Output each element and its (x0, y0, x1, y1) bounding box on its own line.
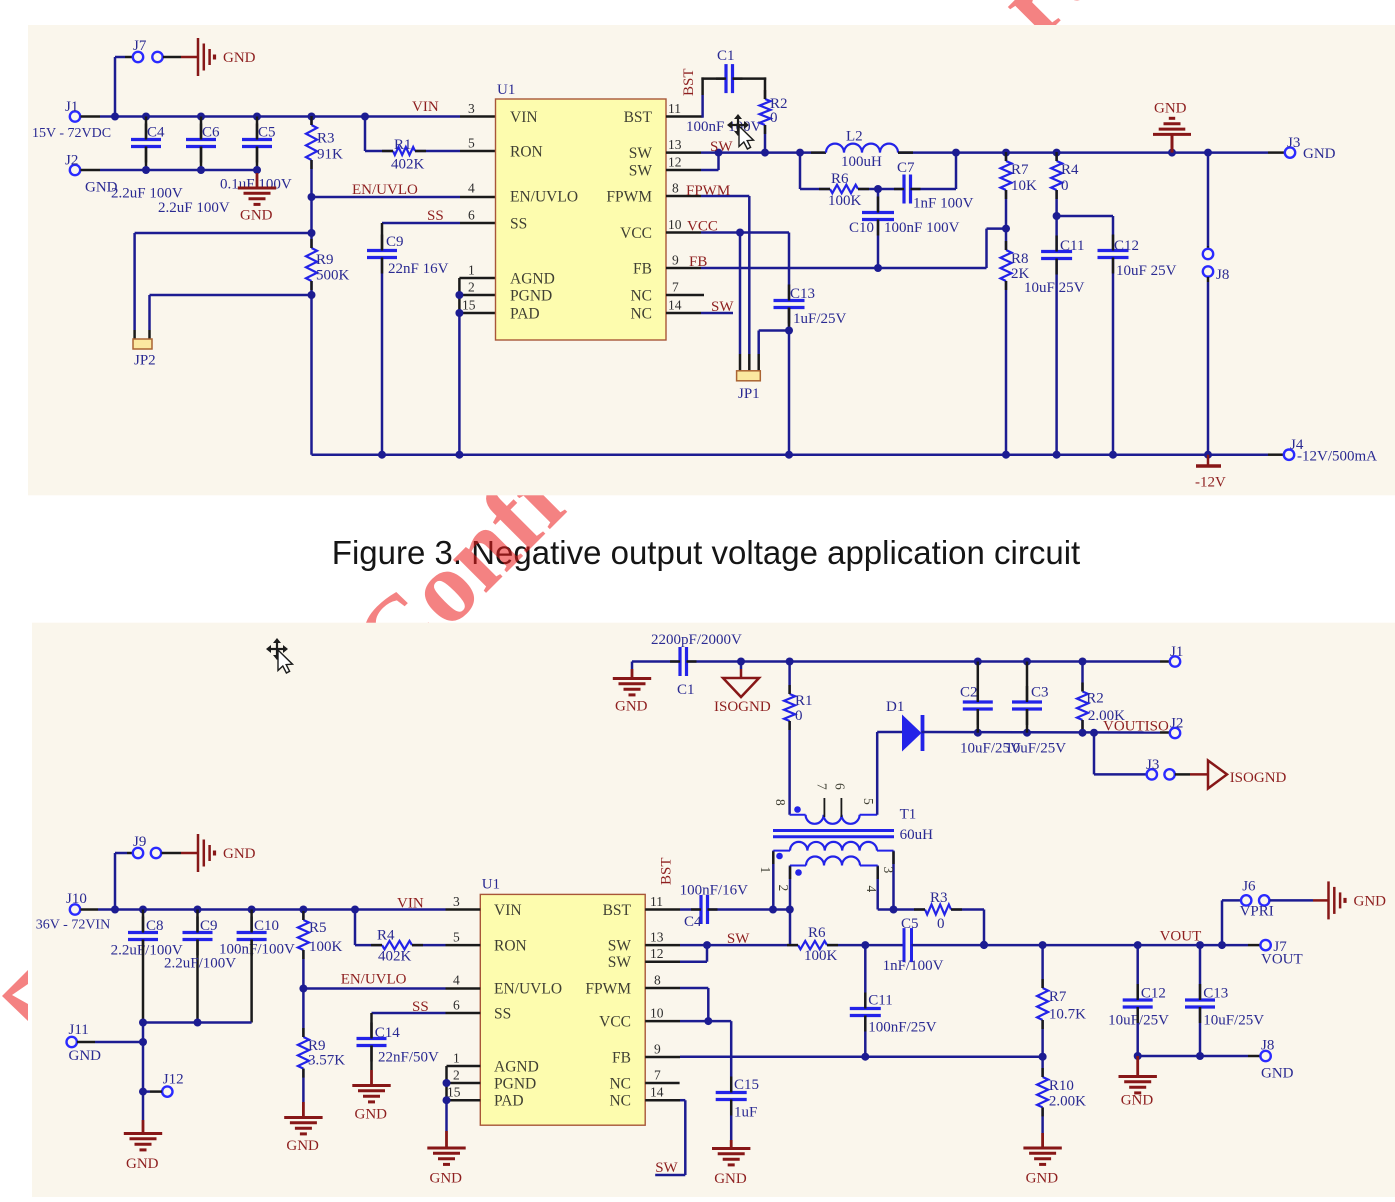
svg-text:J12: J12 (163, 1072, 184, 1088)
svg-text:VPRI: VPRI (1240, 904, 1274, 920)
svg-text:2: 2 (453, 1068, 460, 1083)
svg-text:5: 5 (453, 930, 460, 945)
svg-text:R2: R2 (1086, 691, 1104, 707)
svg-text:SW: SW (608, 938, 632, 955)
svg-text:7: 7 (672, 280, 679, 295)
svg-text:GND: GND (1303, 146, 1336, 162)
svg-text:4: 4 (468, 181, 475, 196)
svg-text:NC: NC (630, 306, 652, 323)
svg-text:BST: BST (681, 68, 697, 96)
svg-text:FPWM: FPWM (686, 183, 730, 199)
svg-text:RON: RON (510, 144, 543, 161)
svg-text:GND: GND (1154, 101, 1187, 117)
svg-text:500K: 500K (316, 268, 350, 284)
svg-text:12: 12 (668, 155, 682, 170)
svg-text:22nF 16V: 22nF 16V (388, 261, 449, 277)
svg-text:D1: D1 (886, 699, 904, 715)
svg-text:7: 7 (654, 1068, 661, 1083)
svg-text:8: 8 (654, 973, 661, 988)
svg-text:SS: SS (412, 999, 429, 1015)
svg-text:0: 0 (795, 708, 803, 724)
svg-text:SW: SW (608, 954, 632, 971)
svg-text:6: 6 (468, 208, 475, 223)
svg-text:BST: BST (624, 109, 653, 126)
svg-text:J3: J3 (1146, 757, 1159, 773)
svg-text:R4: R4 (377, 928, 395, 944)
svg-text:7: 7 (815, 783, 830, 790)
svg-text:PAD: PAD (494, 1093, 524, 1110)
svg-text:FPWM: FPWM (606, 189, 652, 206)
svg-text:FPWM: FPWM (585, 981, 631, 998)
svg-text:J6: J6 (1242, 879, 1256, 895)
svg-text:GND: GND (1026, 1171, 1059, 1187)
svg-text:R8: R8 (1011, 251, 1029, 267)
svg-text:2.00K: 2.00K (1088, 708, 1125, 724)
svg-text:10: 10 (650, 1006, 664, 1021)
svg-text:J2: J2 (65, 153, 78, 169)
svg-text:EN/UVLO: EN/UVLO (352, 182, 418, 198)
svg-text:100nF/25V: 100nF/25V (868, 1020, 937, 1036)
svg-text:100K: 100K (804, 948, 838, 964)
svg-text:J11: J11 (69, 1022, 89, 1038)
svg-text:R6: R6 (808, 925, 826, 941)
svg-text:13: 13 (668, 137, 682, 152)
svg-text:EN/UVLO: EN/UVLO (341, 972, 407, 988)
svg-text:10uF 25V: 10uF 25V (1024, 280, 1085, 296)
svg-text:ISOGND: ISOGND (714, 699, 771, 715)
svg-text:FB: FB (633, 261, 652, 278)
svg-text:100nF/16V: 100nF/16V (680, 883, 749, 899)
svg-text:GND: GND (355, 1107, 388, 1123)
svg-text:GND: GND (223, 846, 256, 862)
svg-text:C12: C12 (1141, 986, 1166, 1002)
svg-text:6: 6 (453, 998, 460, 1013)
svg-text:8: 8 (672, 181, 679, 196)
svg-text:SW: SW (629, 145, 653, 162)
svg-text:C10: C10 (849, 220, 874, 236)
svg-text:11: 11 (650, 894, 663, 909)
svg-text:100nF 100V: 100nF 100V (686, 119, 762, 135)
svg-text:C5: C5 (258, 125, 276, 141)
svg-text:C6: C6 (202, 125, 220, 141)
svg-text:1uF/25V: 1uF/25V (793, 311, 847, 327)
svg-text:GND: GND (223, 50, 256, 66)
svg-text:GND: GND (714, 1171, 747, 1187)
svg-text:T1: T1 (900, 807, 917, 823)
svg-text:BST: BST (603, 902, 632, 919)
svg-text:R10: R10 (1049, 1078, 1074, 1094)
svg-text:GND: GND (430, 1171, 463, 1187)
svg-text:ISOGND: ISOGND (1230, 770, 1287, 786)
svg-text:10: 10 (668, 217, 682, 232)
svg-text:R7: R7 (1049, 989, 1067, 1005)
svg-text:1: 1 (758, 867, 773, 874)
svg-text:R3: R3 (317, 131, 335, 147)
svg-text:PGND: PGND (494, 1076, 536, 1093)
svg-text:1: 1 (453, 1051, 460, 1066)
svg-text:R9: R9 (316, 252, 334, 268)
svg-text:SW: SW (727, 931, 750, 947)
svg-text:15: 15 (462, 298, 476, 313)
svg-text:C15: C15 (734, 1077, 759, 1093)
svg-text:8: 8 (773, 799, 788, 806)
svg-text:R1: R1 (394, 137, 412, 153)
svg-text:10uF/25V: 10uF/25V (1203, 1013, 1264, 1029)
svg-text:C9: C9 (200, 918, 218, 934)
svg-text:AGND: AGND (510, 271, 555, 288)
svg-text:C1: C1 (677, 682, 695, 698)
svg-text:U1: U1 (482, 877, 500, 893)
svg-text:C9: C9 (386, 234, 404, 250)
svg-text:9: 9 (672, 253, 679, 268)
svg-text:VCC: VCC (687, 219, 718, 235)
svg-text:R6: R6 (831, 171, 849, 187)
svg-text:J7: J7 (133, 38, 147, 54)
svg-text:10uF/25V: 10uF/25V (1005, 741, 1066, 757)
svg-text:GND: GND (69, 1048, 102, 1064)
svg-text:11: 11 (668, 101, 681, 116)
svg-text:SW: SW (710, 139, 733, 155)
svg-text:100K: 100K (309, 939, 343, 955)
svg-text:0: 0 (1061, 178, 1069, 194)
svg-text:VCC: VCC (599, 1014, 631, 1031)
svg-text:0: 0 (770, 110, 778, 126)
svg-text:2200pF/2000V: 2200pF/2000V (651, 632, 742, 648)
svg-text:VOUT: VOUT (1261, 952, 1303, 968)
svg-text:91K: 91K (317, 147, 343, 163)
svg-text:BST: BST (659, 857, 675, 885)
svg-text:VIN: VIN (412, 99, 439, 115)
svg-text:NC: NC (630, 288, 652, 305)
svg-text:EN/UVLO: EN/UVLO (494, 981, 562, 998)
svg-text:402K: 402K (391, 157, 425, 173)
svg-text:J8: J8 (1261, 1038, 1274, 1054)
svg-text:14: 14 (650, 1085, 664, 1100)
svg-text:NC: NC (609, 1093, 631, 1110)
svg-text:J8: J8 (1216, 267, 1229, 283)
svg-text:GND: GND (615, 699, 648, 715)
svg-text:J3: J3 (1287, 135, 1300, 151)
svg-text:3.57K: 3.57K (308, 1053, 345, 1069)
svg-text:C14: C14 (375, 1025, 401, 1041)
svg-text:15V - 72VDC: 15V - 72VDC (32, 126, 111, 141)
svg-text:SS: SS (510, 216, 527, 233)
svg-text:SW: SW (711, 299, 734, 315)
svg-text:C8: C8 (146, 918, 164, 934)
svg-text:GND: GND (1121, 1092, 1154, 1108)
svg-text:2.00K: 2.00K (1049, 1094, 1086, 1110)
svg-text:GND: GND (286, 1138, 319, 1154)
svg-text:R7: R7 (1011, 162, 1029, 178)
svg-text:C7: C7 (897, 160, 915, 176)
svg-text:R5: R5 (309, 920, 327, 936)
svg-text:FB: FB (689, 254, 707, 270)
svg-text:C4: C4 (684, 914, 702, 930)
svg-text:60uH: 60uH (900, 827, 934, 843)
svg-text:C13: C13 (1203, 986, 1228, 1002)
svg-text:JP1: JP1 (738, 386, 760, 402)
svg-text:36V - 72VIN: 36V - 72VIN (36, 918, 110, 933)
svg-text:C4: C4 (147, 125, 165, 141)
svg-text:100nF/100V: 100nF/100V (219, 942, 295, 958)
svg-text:EN/UVLO: EN/UVLO (510, 189, 578, 206)
svg-text:NC: NC (609, 1076, 631, 1093)
svg-text:GND: GND (1354, 893, 1387, 909)
svg-text:R3: R3 (930, 890, 948, 906)
svg-text:SW: SW (629, 163, 653, 180)
svg-text:AGND: AGND (494, 1059, 539, 1076)
svg-text:R1: R1 (795, 693, 813, 709)
svg-text:9: 9 (654, 1042, 661, 1057)
svg-text:J10: J10 (66, 891, 87, 907)
svg-text:U1: U1 (497, 82, 515, 98)
svg-text:4: 4 (864, 886, 879, 893)
svg-text:J1: J1 (65, 99, 78, 115)
svg-text:R4: R4 (1061, 162, 1079, 178)
svg-text:SW: SW (655, 1160, 678, 1176)
svg-text:1: 1 (468, 263, 475, 278)
svg-text:0: 0 (937, 916, 945, 932)
svg-text:-12V/500mA: -12V/500mA (1297, 449, 1377, 465)
svg-text:C11: C11 (1060, 238, 1084, 254)
svg-text:C2: C2 (960, 685, 978, 701)
svg-text:3: 3 (468, 101, 475, 116)
svg-text:2.2uF 100V: 2.2uF 100V (158, 200, 230, 216)
svg-text:C10: C10 (254, 918, 279, 934)
svg-text:1nF/100V: 1nF/100V (883, 958, 944, 974)
svg-text:RON: RON (494, 938, 527, 955)
svg-text:1nF 100V: 1nF 100V (913, 196, 974, 212)
svg-text:SS: SS (427, 208, 444, 224)
svg-text:3: 3 (453, 894, 460, 909)
svg-text:100K: 100K (828, 193, 862, 209)
svg-text:C11: C11 (868, 993, 892, 1009)
svg-text:14: 14 (668, 298, 682, 313)
svg-text:J1: J1 (1170, 644, 1183, 660)
svg-text:PGND: PGND (510, 288, 552, 305)
svg-text:VIN: VIN (494, 902, 522, 919)
svg-text:10uF 25V: 10uF 25V (1116, 263, 1177, 279)
svg-text:10K: 10K (1011, 178, 1037, 194)
svg-text:GND: GND (126, 1156, 159, 1172)
svg-text:2: 2 (468, 280, 475, 295)
svg-text:C3: C3 (1031, 685, 1049, 701)
svg-text:SS: SS (494, 1006, 511, 1023)
svg-text:2.2uF/100V: 2.2uF/100V (164, 956, 236, 972)
svg-text:100uH: 100uH (841, 154, 882, 170)
svg-text:100nF 100V: 100nF 100V (884, 220, 960, 236)
svg-text:VIN: VIN (397, 896, 424, 912)
svg-text:VOUT: VOUT (1160, 929, 1202, 945)
svg-text:JP2: JP2 (134, 353, 156, 369)
svg-text:L2: L2 (846, 129, 863, 145)
svg-text:6: 6 (833, 783, 848, 790)
svg-text:J2: J2 (1170, 716, 1183, 732)
svg-text:13: 13 (650, 930, 664, 945)
svg-text:J9: J9 (133, 834, 146, 850)
svg-text:-12V: -12V (1195, 475, 1226, 491)
svg-text:3: 3 (881, 867, 896, 874)
svg-text:C1: C1 (717, 48, 735, 64)
svg-text:1uF: 1uF (734, 1105, 757, 1121)
svg-text:GND: GND (1261, 1066, 1294, 1082)
svg-text:VIN: VIN (510, 109, 538, 126)
svg-text:FB: FB (612, 1050, 631, 1067)
svg-text:PAD: PAD (510, 306, 540, 323)
svg-text:402K: 402K (378, 949, 412, 965)
svg-text:VCC: VCC (620, 225, 652, 242)
svg-text:22nF/50V: 22nF/50V (378, 1050, 439, 1066)
svg-text:C13: C13 (790, 286, 815, 302)
svg-text:4: 4 (453, 973, 460, 988)
svg-text:10.7K: 10.7K (1049, 1007, 1086, 1023)
svg-text:5: 5 (468, 136, 475, 151)
svg-text:5: 5 (861, 798, 876, 805)
svg-text:2: 2 (776, 885, 791, 892)
svg-text:GND: GND (240, 208, 273, 224)
svg-text:C5: C5 (901, 916, 919, 932)
svg-text:C12: C12 (1114, 238, 1139, 254)
svg-text:12: 12 (650, 946, 664, 961)
